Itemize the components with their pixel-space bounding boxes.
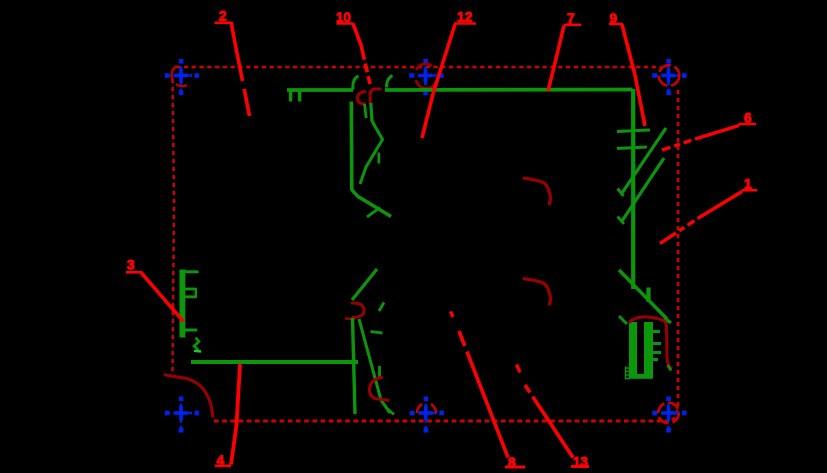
leader 3	[126, 257, 184, 322]
leader 1	[660, 176, 757, 244]
central armature: zigzag	[360, 121, 383, 184]
component pin tick b	[653, 342, 661, 345]
switch blade 2 (right)	[622, 158, 664, 221]
stub off right bus	[646, 288, 650, 303]
central armature: corner diagonal	[352, 190, 392, 217]
leader 4	[215, 364, 240, 468]
drawing frame: red dashed border left	[173, 79, 175, 372]
leader 13	[517, 365, 590, 470]
lower tick horizontal	[371, 332, 383, 334]
terminal tick joiner	[195, 288, 197, 298]
svg-text:3: 3	[127, 257, 135, 273]
leader 12	[422, 9, 476, 139]
wire-end curl at left side of break	[353, 76, 359, 90]
crossing-cable hook right (maroon)	[370, 89, 382, 105]
terminal tick 1	[185, 270, 199, 273]
component pin tick a	[653, 330, 660, 333]
sketched circle around bottom-middle crosshair	[417, 404, 436, 413]
connector pin tick 1 on top bus	[289, 91, 292, 102]
lower diagonal A	[359, 319, 390, 413]
component base	[631, 374, 653, 379]
spring squiggle under terminal strip	[194, 338, 199, 351]
sketched circle around bottom-right crosshair	[658, 403, 679, 424]
component pin tick c	[653, 351, 661, 354]
leader 7	[548, 10, 581, 91]
central armature: stem under hook	[371, 103, 372, 121]
svg-text:12: 12	[457, 9, 473, 25]
wire: lower-right diagonal feed	[619, 270, 667, 319]
tick right of lower hook	[379, 303, 384, 312]
torn-corner cut line bottom-left (maroon)	[164, 375, 213, 418]
green tick at cable end	[668, 365, 672, 371]
switch blade 2 end tick	[618, 217, 625, 225]
leader 10	[336, 10, 370, 84]
terminal tick 3	[185, 295, 197, 298]
maroon J-hook bottom	[369, 377, 389, 401]
drawing frame: red dashed border right	[672, 90, 678, 420]
lower-right small tick	[387, 408, 395, 415]
switch blade 1 (right)	[622, 128, 666, 193]
sketched circle around top-middle crosshair	[416, 64, 436, 89]
registration crosshair top-middle	[409, 59, 443, 95]
terminal tick 4	[185, 329, 197, 332]
component body left bar (right-side relay)	[629, 322, 637, 379]
registration crosshair bottom-middle	[410, 397, 444, 433]
leader 9	[609, 10, 645, 126]
wire: lower vertical	[353, 318, 356, 414]
green tick above cable	[667, 321, 671, 324]
lower tick vertical	[378, 366, 381, 378]
wire-end curl at right side of break	[387, 76, 393, 88]
wire: top bus left segment	[287, 88, 353, 92]
wire: bottom bus	[191, 360, 358, 364]
central lower diagonal into hook	[352, 269, 377, 300]
maroon tail left of lower hook	[345, 317, 355, 320]
leader 6	[662, 110, 756, 151]
drawing frame: red dashed border bottom	[214, 420, 672, 423]
sketched circle around top-left crosshair	[172, 66, 187, 86]
central armature: small dash	[377, 153, 380, 164]
svg-text:2: 2	[219, 8, 227, 24]
switch contact tick 2 (right)	[617, 147, 647, 149]
component pin tick d	[653, 358, 658, 361]
registration crosshair bottom-left	[165, 397, 199, 433]
registration crosshair top-left	[165, 59, 199, 95]
tick at diagonal lower-right	[665, 318, 672, 323]
wire: right vertical bus	[631, 89, 635, 289]
component body right bar	[644, 322, 653, 379]
maroon cable over component	[629, 317, 672, 369]
cable squiggle 2 (maroon)	[523, 279, 551, 306]
central armature: upper tail of lower diagonal	[367, 208, 380, 218]
leader 2	[215, 8, 250, 117]
crossing-cable hook left (maroon)	[357, 92, 366, 105]
central armature: stem inside hook	[365, 104, 367, 118]
sketched circle around top-right crosshair	[659, 65, 680, 86]
bright dash under spring	[194, 350, 201, 353]
switch blade 1 end tick	[618, 189, 624, 197]
registration crosshair top-right	[652, 59, 686, 95]
wire: top bus right segment	[385, 88, 633, 92]
cable squiggle 1 (maroon)	[523, 178, 551, 205]
component ladder comb left	[625, 367, 630, 380]
drawing frame: red dashed border top	[176, 66, 661, 69]
central armature: left vertical	[349, 102, 353, 191]
terminal strip bar (left)	[180, 270, 186, 338]
terminal tick 2	[185, 288, 196, 291]
leader 8	[451, 312, 526, 471]
switch contact tick 1 (right)	[617, 130, 650, 132]
connector pin tick 2 on top bus	[298, 91, 301, 102]
tick at diagonal lower-left	[619, 316, 627, 324]
crossing-cable hook lower (maroon)	[351, 303, 364, 318]
registration crosshair bottom-right	[652, 397, 686, 433]
